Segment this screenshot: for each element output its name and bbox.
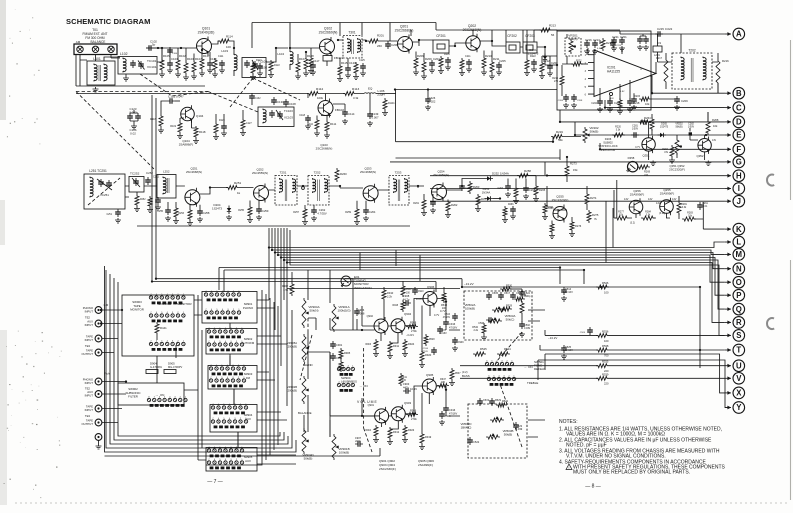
label BASS bbox=[462, 370, 470, 378]
wire Q351 collector drops bbox=[649, 112, 708, 160]
svg-text:1k: 1k bbox=[237, 191, 241, 195]
svg-text:R108: R108 bbox=[307, 54, 314, 58]
svg-text:2: 2 bbox=[238, 377, 240, 379]
trimmer TC252 bbox=[129, 172, 144, 193]
svg-text:G-4700PA: G-4700PA bbox=[150, 365, 162, 369]
wire R201 to Q201 bbox=[380, 40, 398, 42]
svg-text:FILTER: FILTER bbox=[128, 395, 138, 399]
svg-text:5: 5 bbox=[219, 459, 221, 461]
svg-text:1N34A: 1N34A bbox=[482, 190, 491, 194]
svg-text:R114: R114 bbox=[226, 35, 233, 39]
transistor Q103 bbox=[316, 99, 345, 151]
svg-text:4: 4 bbox=[227, 377, 229, 379]
wire K trunk from pair bbox=[612, 208, 614, 248]
resistor R251 bbox=[226, 181, 242, 195]
svg-text:47/16V: 47/16V bbox=[443, 317, 451, 319]
svg-text:C117: C117 bbox=[313, 59, 320, 63]
wire bus line to S riser bbox=[290, 230, 725, 335]
svg-text:INPUT: INPUT bbox=[85, 381, 94, 385]
svg-text:100k: 100k bbox=[317, 96, 324, 100]
wire bus line to R bbox=[287, 228, 725, 322]
LED D358 bbox=[627, 156, 638, 172]
wire preamp Rch bbox=[362, 386, 446, 429]
svg-text:4: 4 bbox=[169, 396, 171, 398]
wire vertical drops from B+ rail bbox=[340, 23, 527, 59]
svg-text:R529: R529 bbox=[495, 399, 502, 402]
svg-text:R121: R121 bbox=[256, 59, 262, 62]
svg-text:R441: R441 bbox=[160, 326, 167, 330]
svg-text:T253: T253 bbox=[395, 171, 402, 175]
AM antenna box L251/TC251 bbox=[84, 169, 125, 209]
label TE2 L bbox=[85, 316, 91, 320]
voltage 0.7V bbox=[440, 309, 446, 313]
resistor R274 bbox=[585, 186, 597, 210]
svg-text:50k(B): 50k(B) bbox=[590, 130, 599, 134]
svg-text:R206: R206 bbox=[417, 54, 424, 58]
resistor R268 bbox=[706, 112, 719, 135]
svg-text:7: 7 bbox=[208, 341, 210, 343]
svg-text:TC101: TC101 bbox=[147, 59, 157, 63]
svg-text:C264: C264 bbox=[369, 210, 376, 214]
wire terminal feeds bbox=[102, 310, 126, 423]
svg-text:MONITOR: MONITOR bbox=[130, 308, 144, 312]
svg-text:D206: D206 bbox=[605, 137, 612, 141]
quad coil T202 bbox=[672, 49, 712, 90]
capacitor C522 bbox=[467, 437, 480, 445]
transistor Q903 bbox=[391, 401, 411, 423]
voltage labels 14V bbox=[624, 198, 677, 205]
switch wafer SR904 row2 bbox=[211, 418, 247, 428]
svg-text:R216: R216 bbox=[722, 59, 729, 63]
wire to node V bbox=[460, 377, 725, 379]
wire Q201 collector to CF201 bbox=[413, 40, 434, 46]
label L/R bbox=[104, 303, 110, 307]
transistor Q906 bbox=[423, 285, 437, 308]
svg-text:C910: C910 bbox=[418, 291, 424, 293]
coil L104 bbox=[277, 48, 293, 70]
svg-text:1: 1 bbox=[185, 396, 187, 398]
svg-text:R260: R260 bbox=[340, 172, 347, 176]
svg-text:Y: Y bbox=[736, 403, 742, 412]
node D (connector) bbox=[725, 116, 745, 128]
svg-text:R266: R266 bbox=[508, 204, 514, 206]
svg-text:C127: C127 bbox=[246, 122, 252, 125]
transistor Q253 bbox=[360, 167, 378, 203]
switch wafer SR905 row2 bbox=[207, 459, 243, 469]
svg-text:6: 6 bbox=[585, 94, 587, 97]
caps C221 C201 inside IC box right bbox=[611, 35, 627, 51]
wire shield frame MPX bbox=[396, 90, 558, 142]
svg-text:0.039: 0.039 bbox=[516, 427, 523, 431]
resistor R911 bbox=[387, 341, 400, 359]
switch SR905 box bbox=[206, 448, 257, 472]
svg-text:5: 5 bbox=[164, 396, 166, 398]
wire Q251 to Q252 bbox=[200, 188, 254, 195]
svg-text:C517: C517 bbox=[504, 292, 511, 295]
svg-text:5: 5 bbox=[219, 341, 221, 343]
node H (connector) bbox=[725, 170, 745, 182]
svg-text:3.3k: 3.3k bbox=[353, 96, 359, 100]
svg-text:R222: R222 bbox=[530, 55, 536, 58]
svg-text:C131: C131 bbox=[277, 100, 284, 104]
wire loop 6 bbox=[265, 294, 267, 460]
wire loop 8 bbox=[273, 302, 275, 450]
terminal GND bbox=[95, 434, 102, 441]
wire R113 to L106 bbox=[333, 93, 364, 95]
capacitor C910 bbox=[412, 287, 424, 295]
svg-text:2: 2 bbox=[585, 62, 587, 65]
dashed gang volume 2 bbox=[300, 335, 312, 380]
svg-text:2SC2668(N): 2SC2668(N) bbox=[360, 170, 376, 174]
RC comb AM a bbox=[134, 192, 146, 212]
resistor group under Q201 (R206 R209 C204) bbox=[413, 52, 440, 80]
wire to node I bbox=[430, 188, 725, 190]
svg-text:M: M bbox=[736, 250, 743, 259]
svg-text:3: 3 bbox=[230, 459, 232, 461]
caps C505 C517 C524 in tone box bbox=[486, 292, 526, 301]
capacitor C524c bbox=[519, 289, 531, 298]
resistor R916 lower bbox=[406, 409, 418, 422]
svg-text:6: 6 bbox=[156, 312, 158, 314]
svg-text:4: 4 bbox=[167, 312, 169, 314]
svg-text:C267: C267 bbox=[498, 188, 504, 190]
svg-text:1: 1 bbox=[183, 340, 185, 342]
resistor R217 (T202 primary) bbox=[656, 53, 668, 89]
svg-text:CF202: CF202 bbox=[507, 34, 517, 38]
node M (connector) bbox=[725, 249, 745, 261]
svg-text:14V: 14V bbox=[648, 198, 653, 201]
IC shield box bbox=[557, 31, 651, 110]
svg-text:R252: R252 bbox=[140, 199, 146, 201]
svg-text:R113: R113 bbox=[352, 87, 359, 91]
wire C102 to Q101 gate bbox=[154, 47, 197, 49]
wire bus vertical drops into preamp bbox=[360, 250, 420, 281]
svg-text:50k(N): 50k(N) bbox=[309, 309, 318, 313]
resistor R530 bbox=[500, 285, 522, 292]
svg-text:R104: R104 bbox=[195, 57, 202, 61]
svg-text:4: 4 bbox=[225, 341, 227, 343]
svg-text:447p: 447p bbox=[403, 385, 409, 389]
svg-text:5: 5 bbox=[223, 418, 225, 420]
svg-text:C125: C125 bbox=[359, 59, 365, 62]
svg-text:D905: D905 bbox=[168, 362, 175, 366]
transistor Q102 bbox=[319, 27, 338, 57]
label TE3 L bbox=[85, 344, 91, 348]
svg-text:4: 4 bbox=[496, 360, 498, 362]
label SW903 TAPE MONITOR bbox=[130, 300, 144, 312]
svg-text:2SA999(F): 2SA999(F) bbox=[630, 193, 645, 197]
svg-text:3: 3 bbox=[174, 396, 176, 398]
svg-text:Q104: Q104 bbox=[196, 114, 204, 118]
switch wafer SR902 row1 bbox=[207, 328, 243, 338]
svg-text:2: 2 bbox=[348, 365, 350, 367]
wire pot column vertical bbox=[308, 270, 330, 437]
svg-text:3: 3 bbox=[234, 418, 236, 420]
pot VR503B bbox=[486, 429, 513, 439]
svg-text:L101: L101 bbox=[93, 57, 101, 61]
svg-text:14V: 14V bbox=[656, 202, 661, 205]
resistor R112 on row2 bbox=[307, 87, 324, 100]
svg-text:G: G bbox=[736, 158, 742, 167]
capacitor C217b bbox=[637, 34, 649, 50]
svg-text:R213: R213 bbox=[549, 24, 556, 28]
ground under L101 bbox=[93, 87, 99, 92]
resistor R214 bbox=[552, 65, 564, 96]
node G (connector) bbox=[725, 156, 745, 168]
svg-text:T251: T251 bbox=[280, 171, 287, 175]
svg-text:INPUT: INPUT bbox=[85, 310, 94, 314]
transistor Q905 bbox=[422, 373, 436, 395]
svg-text:R116: R116 bbox=[150, 117, 157, 121]
svg-text:D904: D904 bbox=[150, 362, 157, 366]
svg-text:2: 2 bbox=[240, 418, 242, 420]
svg-text:R115: R115 bbox=[341, 61, 348, 65]
ground node Q352 emitter bbox=[705, 161, 711, 166]
wire TC102 box to L104 bbox=[266, 48, 288, 62]
svg-text:CF201: CF201 bbox=[436, 34, 446, 38]
svg-text:PHONO: PHONO bbox=[243, 306, 254, 310]
svg-text:3: 3 bbox=[227, 309, 229, 311]
scan hole punch upper bbox=[767, 175, 774, 186]
svg-text:100: 100 bbox=[604, 339, 609, 343]
diode D204 bbox=[212, 203, 232, 220]
label SR905 AUX bbox=[244, 455, 253, 463]
resistor R264 on row D bbox=[638, 116, 651, 124]
svg-text:7: 7 bbox=[212, 418, 214, 420]
antenna coil L101 bbox=[87, 57, 115, 85]
tone dashed box lower bbox=[468, 404, 527, 458]
svg-text:1: 1 bbox=[352, 365, 354, 367]
capacitor C139 bbox=[367, 94, 379, 127]
coil L201 bbox=[653, 34, 666, 62]
wire bus line to O bbox=[278, 228, 725, 282]
svg-text:R111: R111 bbox=[330, 122, 337, 126]
svg-text:C902: C902 bbox=[336, 356, 343, 360]
wire to node A bbox=[620, 31, 725, 62]
svg-text:0.022: 0.022 bbox=[129, 111, 137, 115]
svg-text:220: 220 bbox=[604, 382, 609, 386]
caps C216 C217 inside IC box bbox=[584, 38, 613, 54]
wire dashed gang diag 1 bbox=[140, 74, 208, 96]
wire bus line tone feed 1 bbox=[219, 268, 560, 291]
svg-text:I: I bbox=[738, 184, 740, 193]
capacitor C282 bbox=[688, 123, 695, 136]
wire D201 to IC bbox=[545, 62, 557, 65]
node B (connector) bbox=[725, 87, 745, 99]
svg-text:V: V bbox=[736, 374, 742, 383]
resistor R264A bbox=[640, 117, 654, 131]
switch wafer SR901 row2 bbox=[204, 309, 240, 319]
svg-text:L252: L252 bbox=[163, 170, 170, 174]
svg-text:C916: C916 bbox=[449, 322, 456, 326]
RC comb under T301 bbox=[353, 59, 366, 80]
capacitor C108 above osc box bbox=[283, 99, 296, 107]
svg-text:56k(B): 56k(B) bbox=[675, 126, 682, 129]
wire G to tone bbox=[545, 149, 560, 175]
svg-text:R255: R255 bbox=[238, 209, 244, 212]
AM RC cluster 4 bbox=[293, 205, 327, 225]
svg-text:C259: C259 bbox=[262, 209, 269, 213]
label BALANCE bbox=[298, 411, 312, 415]
svg-text:10k: 10k bbox=[688, 215, 693, 218]
svg-text:AUX: AUX bbox=[245, 417, 251, 421]
svg-text:STATION LOCK: STATION LOCK bbox=[598, 144, 618, 148]
svg-text:FB102: FB102 bbox=[335, 108, 344, 112]
svg-text:C519: C519 bbox=[483, 399, 490, 402]
wire to node D bbox=[560, 110, 725, 122]
svg-text:INPUT: INPUT bbox=[85, 394, 94, 398]
switch SW903 TAPE MONITOR box bbox=[122, 295, 194, 356]
svg-text:R273: R273 bbox=[570, 162, 577, 166]
tone dashed box upper bbox=[464, 291, 532, 340]
svg-text:DEFEAT: DEFEAT bbox=[534, 367, 546, 371]
svg-text:R210: R210 bbox=[485, 54, 492, 58]
wire preamp links bbox=[304, 279, 446, 437]
svg-text:R: R bbox=[736, 318, 742, 327]
svg-text:7k: 7k bbox=[594, 217, 597, 221]
transistor Q251 bbox=[185, 167, 202, 207]
svg-text:2SC2668(N): 2SC2668(N) bbox=[316, 147, 333, 151]
svg-text:R905: R905 bbox=[344, 351, 351, 355]
svg-text:!: ! bbox=[569, 466, 570, 470]
svg-text:TREBLE: TREBLE bbox=[527, 381, 538, 385]
transistor Q201 bbox=[395, 25, 414, 54]
svg-text:INPUT: INPUT bbox=[85, 408, 94, 412]
transistor Q902 bbox=[367, 314, 388, 335]
wire loop 5 bbox=[206, 290, 262, 465]
svg-text:— 8 —: — 8 — bbox=[585, 484, 601, 490]
svg-text:1.5k: 1.5k bbox=[283, 289, 288, 292]
svg-text:→: → bbox=[155, 393, 158, 397]
resistor R524 bbox=[497, 347, 511, 356]
svg-text:3: 3 bbox=[501, 360, 503, 362]
node T (connector) bbox=[725, 344, 745, 356]
svg-text:6: 6 bbox=[156, 340, 158, 342]
svg-text:R105: R105 bbox=[163, 54, 170, 58]
station lock text D206 bbox=[598, 137, 618, 152]
svg-text:5p: 5p bbox=[152, 43, 156, 47]
coil L106 bbox=[364, 87, 388, 97]
svg-text:INDICATOR: INDICATOR bbox=[601, 148, 616, 152]
svg-text:4: 4 bbox=[225, 459, 227, 461]
resistor R535 on line U bbox=[596, 360, 609, 373]
svg-text:OUTPUT: OUTPUT bbox=[82, 352, 94, 356]
RC under Q255 bbox=[549, 217, 582, 239]
node U (connector) bbox=[725, 360, 745, 372]
svg-text:R264A: R264A bbox=[640, 120, 647, 123]
svg-text:L104: L104 bbox=[277, 52, 284, 56]
svg-text:AUX: AUX bbox=[245, 459, 251, 463]
svg-text:Q352: Q352 bbox=[696, 154, 703, 158]
svg-text:T301: T301 bbox=[348, 31, 355, 35]
node R (connector) bbox=[725, 317, 745, 329]
scan bottom dotted artifact bbox=[15, 502, 790, 504]
label SOURCE-MONITOR bbox=[158, 302, 192, 306]
label TE2 R bbox=[85, 387, 91, 391]
power rail -13.2V tone bbox=[462, 282, 700, 368]
svg-text:2.2k: 2.2k bbox=[473, 329, 478, 332]
svg-text:U: U bbox=[736, 361, 742, 370]
terminal strip T01 labels bbox=[76, 28, 108, 44]
svg-text:6.5V: 6.5V bbox=[597, 48, 602, 50]
AM AGC wire bbox=[137, 225, 160, 227]
wire loop 9 bbox=[105, 448, 381, 456]
svg-text:R215: R215 bbox=[634, 95, 641, 98]
label Rch bbox=[104, 372, 110, 376]
svg-text:R219: R219 bbox=[556, 130, 563, 134]
wire dashed gang diag 2 bbox=[76, 92, 155, 171]
svg-text:A: A bbox=[736, 30, 742, 39]
resistor R918 bbox=[406, 321, 418, 334]
IF coil L103 bbox=[221, 49, 237, 72]
svg-text:R902: R902 bbox=[282, 285, 289, 288]
svg-text:C916: C916 bbox=[449, 408, 456, 412]
svg-text:1: 1 bbox=[183, 312, 185, 314]
svg-text:(3.2): (3.2) bbox=[630, 222, 635, 225]
node C (connector) bbox=[725, 102, 745, 114]
wire Q256 pair joins bbox=[614, 190, 703, 219]
diode D251 bbox=[482, 187, 500, 201]
svg-text:Q: Q bbox=[736, 305, 742, 314]
indicator E01 bbox=[341, 276, 351, 287]
capacitor C525 bbox=[561, 345, 573, 359]
svg-text:R537: R537 bbox=[455, 373, 461, 375]
AM RC cluster 1 bbox=[157, 202, 179, 224]
svg-text:MUST ONLY BE REPLACED BY ORIGI: MUST ONLY BE REPLACED BY ORIGINAL PARTS. bbox=[573, 470, 690, 476]
svg-text:6: 6 bbox=[211, 309, 213, 311]
RC preamp col a bbox=[452, 337, 464, 351]
svg-text:R539: R539 bbox=[602, 372, 609, 376]
resistor group under Q102 (R107 R108 C117) bbox=[295, 52, 320, 79]
resistor R924 bbox=[402, 339, 415, 357]
svg-text:EQ: EQ bbox=[368, 87, 373, 91]
junction node at Q101 gate bbox=[180, 47, 182, 49]
svg-text:C104: C104 bbox=[172, 53, 178, 55]
resistor R902a bbox=[282, 272, 460, 296]
svg-text:100: 100 bbox=[442, 307, 447, 310]
wire bus line to M bbox=[272, 228, 725, 254]
wire row2 to Q103 bbox=[320, 94, 333, 101]
svg-text:47/16V: 47/16V bbox=[449, 326, 457, 330]
wire loop 3 bbox=[114, 278, 284, 440]
svg-text:−13.2V: −13.2V bbox=[548, 336, 557, 340]
node J (connector) bbox=[725, 195, 745, 207]
bias network left of Q102 bbox=[308, 48, 314, 74]
pot VR502D bbox=[461, 416, 504, 430]
switch wafer SR902 row2 bbox=[207, 341, 243, 351]
resistor R258 bbox=[517, 169, 531, 178]
switch SR903 FM box bbox=[208, 366, 257, 390]
svg-text:C213: C213 bbox=[616, 45, 622, 47]
switch wafer SW903 row1 bbox=[149, 294, 185, 304]
ceramic filter CF201 bbox=[433, 34, 449, 53]
label BLEND bbox=[303, 363, 313, 367]
svg-text:0.068: 0.068 bbox=[358, 311, 365, 315]
svg-text:R258: R258 bbox=[524, 169, 531, 173]
svg-text:R222: R222 bbox=[576, 61, 582, 63]
svg-text:C524: C524 bbox=[580, 332, 586, 334]
wire preamp Lch bbox=[362, 299, 446, 344]
capacitor C906 bbox=[354, 308, 365, 316]
svg-text:330: 330 bbox=[406, 293, 411, 295]
svg-text:R911: R911 bbox=[393, 344, 400, 348]
svg-text:HA11225: HA11225 bbox=[607, 69, 620, 73]
svg-text:7: 7 bbox=[208, 459, 210, 461]
wire ground rail FM bbox=[76, 85, 205, 87]
transistor Q254 bbox=[432, 170, 450, 202]
label Q351 Q352 type bbox=[669, 164, 685, 172]
node V (connector) bbox=[725, 373, 745, 385]
